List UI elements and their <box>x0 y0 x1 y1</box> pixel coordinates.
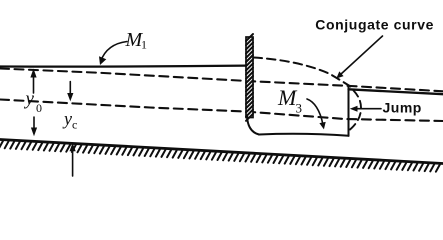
conjugate curve (dashed) <box>254 58 351 87</box>
leader arrow Jump <box>357 108 382 110</box>
leader arrow M3 <box>307 99 323 124</box>
critical depth line yc (dashed) <box>0 100 443 122</box>
bed hatching <box>0 141 440 172</box>
M3 water surface profile <box>259 134 349 136</box>
dimension arrow yc lower (below bed) <box>72 151 74 177</box>
leader arrow conjugate curve <box>341 36 383 75</box>
svg-text:0: 0 <box>36 101 42 115</box>
normal depth line y0 (dashed) <box>0 69 443 92</box>
svg-text:1: 1 <box>141 38 147 52</box>
channel bed <box>0 140 443 164</box>
svg-text:Conjugate curve: Conjugate curve <box>315 17 434 33</box>
dimension arrow yc upper <box>69 82 71 95</box>
jump roller arc (dashed) <box>350 91 361 130</box>
jet surface under gate (vena contracta) <box>247 116 259 135</box>
svg-text:Jump: Jump <box>383 100 422 116</box>
downstream water surface <box>349 89 443 94</box>
upstream water surface M1 profile <box>0 66 246 67</box>
leader arrow M1 <box>101 42 127 62</box>
hydraulic jump front <box>348 87 350 136</box>
sluice gate <box>246 34 253 121</box>
svg-text:y: y <box>62 109 72 129</box>
svg-text:c: c <box>72 118 77 132</box>
svg-text:3: 3 <box>296 101 303 116</box>
dimension arrow y0 (two-headed, broken at label) <box>33 74 35 93</box>
